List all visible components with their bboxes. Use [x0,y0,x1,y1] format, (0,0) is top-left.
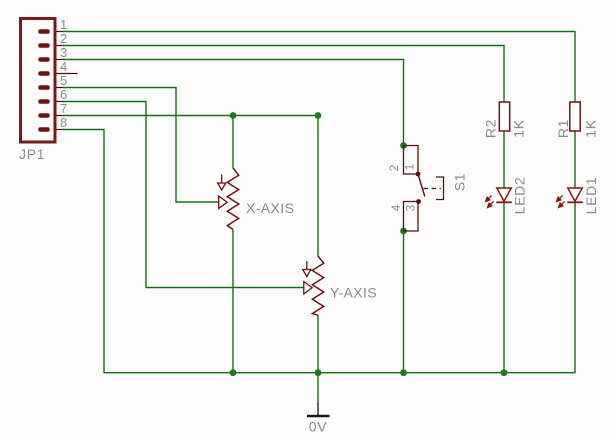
svg-text:R2: R2 [483,119,499,138]
JP1 pin 5 contact [38,85,49,90]
svg-text:5: 5 [60,73,67,88]
svg-text:R1: R1 [555,119,571,138]
ground symbol 0V bar [307,415,330,417]
JP1 pin 5 stub [56,87,64,89]
potentiometer Y-AXIS zigzag [312,256,323,315]
switch S1 pivot dot top [416,172,421,177]
diode LED2 triangle [497,188,512,201]
svg-text:1: 1 [405,164,417,170]
switch S1 actuator bracket [436,177,444,200]
wire net pin7 to pots top [63,116,318,257]
JP1 pin 4 stub (unconnected) [56,73,78,75]
svg-text:8: 8 [60,115,67,130]
svg-text:JP1: JP1 [19,146,45,162]
LED1 cathode bar [567,201,583,203]
JP1 pin 2 stub [56,45,64,47]
LED2 cathode bar [496,201,512,203]
svg-text:6: 6 [60,87,67,102]
junction node bus LED2 [501,369,508,376]
potentiometer X-AXIS wiper [219,196,228,209]
wire ground tap [317,373,319,404]
potentiometer Y-AXIS adjust arrow [303,261,311,277]
svg-text:7: 7 [60,101,67,116]
LED1 emission arrows [557,195,565,207]
JP1 pin 6 contact [38,99,49,104]
wire R1 to LED1 [574,131,576,188]
svg-text:1K: 1K [583,119,599,138]
JP1 pin 1 stub [56,31,64,33]
svg-text:1K: 1K [511,119,527,138]
JP1 pin 8 stub [56,129,64,131]
connector JP1 body [21,19,56,143]
JP1 pin 2 contact [38,43,49,48]
resistor R1 body [570,102,580,131]
wire S1 bottom to bus [403,231,405,373]
JP1 pin 8 contact [38,127,49,132]
switch S1 bottom contact frame (pins 4,3) [404,202,419,232]
wire net pin3 to S1 pin2 [63,60,404,146]
diode LED1 triangle [568,188,583,201]
svg-text:2: 2 [60,31,67,46]
JP1 pin 4 contact [38,71,49,76]
junction node bus X [230,369,237,376]
svg-text:2: 2 [389,165,401,171]
svg-text:3: 3 [406,205,418,211]
svg-text:0V: 0V [309,419,328,435]
wire Y-AXIS bottom to bus [317,315,319,373]
wire net pin2 to R2 top [63,46,504,103]
wire net pin8 to ground bus [63,130,575,373]
wire X-AXIS bottom to bus [232,230,234,373]
svg-text:Y-AXIS: Y-AXIS [330,285,377,301]
junction node S1 bottom [400,228,407,235]
svg-text:LED1: LED1 [583,177,599,215]
ground symbol 0V stem [317,403,319,416]
JP1 pin 3 stub [56,59,64,61]
svg-text:3: 3 [60,45,67,60]
svg-text:X-AXIS: X-AXIS [246,200,294,216]
switch S1 contact dot bottom [416,199,421,204]
switch S1 top contact frame (pins 2,1) [404,146,419,175]
LED2 emission arrows [486,195,494,207]
junction node bus S1 [400,369,407,376]
JP1 pin 1 contact [38,29,49,34]
junction node bus ground [315,369,322,376]
switch S1 actuator dashed link [424,188,442,190]
resistor R2 body [499,102,509,131]
JP1 pin 6 stub [56,101,64,103]
wire LED2 to bus [503,202,505,372]
potentiometer X-AXIS zigzag [227,168,238,229]
wire branch X-AXIS top [232,116,234,169]
wire net pin1 to R1 top [63,32,575,103]
svg-text:LED2: LED2 [512,177,528,215]
wire net pin6 to Y-AXIS wiper [63,102,304,288]
svg-text:4: 4 [391,204,403,211]
junction node Y top [315,112,322,119]
svg-text:1: 1 [60,17,67,32]
JP1 pin 7 contact [38,113,49,118]
svg-text:S1: S1 [452,173,468,192]
junction node X top [230,112,237,119]
JP1 pin 7 stub [56,115,64,117]
wire net pin5 to X-AXIS wiper [63,88,219,203]
potentiometer Y-AXIS wiper [304,282,312,295]
svg-text:4: 4 [60,59,67,74]
switch S1 lever [418,174,425,197]
wire R2 to LED2 [503,131,505,188]
junction node S1 top [400,142,407,149]
potentiometer X-AXIS adjust arrow [218,175,226,191]
JP1 pin 3 contact [38,57,49,62]
